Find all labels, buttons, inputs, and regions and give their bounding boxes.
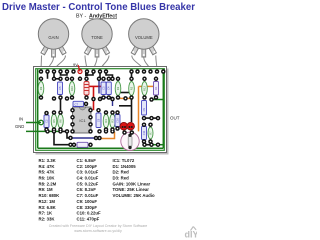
svg-text:IN: IN xyxy=(19,117,23,122)
svg-text:C4: C4 xyxy=(107,86,111,90)
svg-text:D2: Red: D2: Red xyxy=(113,170,130,175)
svg-text:C9: C9 xyxy=(142,107,146,111)
svg-text:R4: 47K: R4: 47K xyxy=(39,164,56,169)
svg-text:C5: C5 xyxy=(58,86,62,90)
svg-text:C2: C2 xyxy=(44,119,48,123)
svg-text:C9: 100uF: C9: 100uF xyxy=(77,199,98,204)
svg-text:C3: C3 xyxy=(101,86,105,90)
svg-text:C7: C7 xyxy=(75,102,79,106)
svg-text:C6: 8.2nF: C6: 8.2nF xyxy=(77,187,97,192)
svg-text:C1: 6.8nF: C1: 6.8nF xyxy=(77,158,97,163)
svg-text:GAIN: GAIN xyxy=(48,35,58,40)
svg-text:BY -: BY - xyxy=(76,14,86,20)
svg-text:TONE: TONE xyxy=(91,35,103,40)
svg-text:R8: 2.2M: R8: 2.2M xyxy=(39,181,57,186)
svg-text:D1: D1 xyxy=(154,86,158,90)
svg-text:R5: R5 xyxy=(52,119,56,123)
svg-text:C10: C10 xyxy=(115,118,119,123)
svg-text:R6: 10K: R6: 10K xyxy=(39,176,56,181)
svg-text:R4: R4 xyxy=(104,119,108,123)
svg-text:R2: 33K: R2: 33K xyxy=(39,217,56,222)
svg-text:C11: 470pF: C11: 470pF xyxy=(77,217,100,222)
svg-text:C3: 0.01uF: C3: 0.01uF xyxy=(77,170,99,175)
svg-text:R9: R9 xyxy=(39,86,43,90)
svg-text:C8: 330pF: C8: 330pF xyxy=(77,205,98,210)
svg-text:9V: 9V xyxy=(73,62,78,67)
svg-text:R12: 1M: R12: 1M xyxy=(39,199,56,204)
svg-text:C4: 0.01uF: C4: 0.01uF xyxy=(77,176,99,181)
svg-text:R3: R3 xyxy=(110,119,114,123)
svg-text:AndyEffect: AndyEffect xyxy=(89,14,117,20)
svg-text:R9: 1M: R9: 1M xyxy=(39,187,54,192)
svg-text:C7: 0.01uF: C7: 0.01uF xyxy=(77,193,99,198)
svg-text:www.storm-software.co.yu/diy: www.storm-software.co.yu/diy xyxy=(74,229,122,233)
svg-text:R12: R12 xyxy=(142,86,146,91)
svg-text:C10: 0.22uF: C10: 0.22uF xyxy=(77,211,101,216)
svg-text:R2: R2 xyxy=(129,86,133,90)
svg-text:C11: C11 xyxy=(142,130,146,135)
svg-text:R7: 1K: R7: 1K xyxy=(39,211,54,216)
svg-text:R3: 6.8K: R3: 6.8K xyxy=(39,205,57,210)
svg-text:R7: R7 xyxy=(148,131,152,135)
svg-text:C6: C6 xyxy=(96,118,100,122)
svg-text:R1: 3.3K: R1: 3.3K xyxy=(39,158,57,163)
svg-text:OUT: OUT xyxy=(170,116,180,121)
svg-text:IC1: IC1 xyxy=(79,118,86,123)
svg-text:VOLUME: VOLUME xyxy=(135,35,153,40)
svg-text:GND: GND xyxy=(15,124,24,129)
svg-text:C5: 0.22uF: C5: 0.22uF xyxy=(77,181,99,186)
svg-text:D3: Red: D3: Red xyxy=(113,176,130,181)
svg-text:IC1: TL072: IC1: TL072 xyxy=(113,158,135,163)
svg-text:C2: 100pF: C2: 100pF xyxy=(77,164,98,169)
svg-text:R10: R10 xyxy=(70,86,74,91)
svg-text:R10: 680K: R10: 680K xyxy=(39,193,61,198)
svg-text:Created with Freeware DIY Layo: Created with Freeware DIY Layout Creator… xyxy=(49,224,148,228)
svg-text:R5: 47K: R5: 47K xyxy=(39,170,56,175)
svg-text:TONE: 25K Linear: TONE: 25K Linear xyxy=(113,187,150,192)
svg-text:GAIN: 100K Linear: GAIN: 100K Linear xyxy=(113,181,151,186)
svg-text:dIY: dIY xyxy=(185,230,198,240)
svg-text:R1: R1 xyxy=(116,86,120,90)
svg-text:VOLUME: 25K Audio: VOLUME: 25K Audio xyxy=(113,193,155,198)
svg-text:Drive Master - Control Tone Bl: Drive Master - Control Tone Blues Breake… xyxy=(2,2,195,13)
svg-text:R6: R6 xyxy=(58,119,62,123)
svg-text:D1: 1N4005: D1: 1N4005 xyxy=(113,164,137,169)
